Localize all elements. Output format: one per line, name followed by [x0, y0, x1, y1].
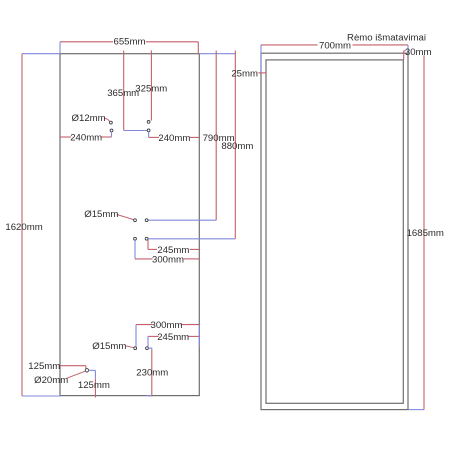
hole M-LR — [145, 237, 148, 240]
dimension 25mm — [231, 69, 266, 80]
hole UL — [110, 121, 113, 124]
wire blue extension top-left — [22, 53, 60, 55]
hole M-LL — [134, 237, 137, 240]
svg-text:245mm: 245mm — [157, 332, 189, 343]
svg-text:230mm: 230mm — [136, 368, 168, 379]
dimension 655mm line — [60, 37, 198, 54]
hole M-UL — [134, 219, 137, 222]
svg-text:Ø20mm: Ø20mm — [34, 375, 68, 386]
hole M-UR — [145, 219, 148, 222]
dimension 1685mm — [407, 55, 444, 409]
dimension 125mm upper — [28, 361, 86, 372]
wire blue hole to 880 — [148, 238, 235, 240]
leader Ø15mm upper — [84, 209, 133, 220]
hole UR — [147, 121, 150, 124]
hole B-R — [146, 347, 149, 350]
dimension 880mm line — [221, 51, 253, 239]
wire blue hole to 790 — [148, 219, 216, 221]
svg-text:Rėmo išmatavimai: Rėmo išmatavimai — [347, 33, 426, 44]
svg-text:700mm: 700mm — [319, 40, 351, 51]
svg-text:300mm: 300mm — [151, 320, 183, 331]
dimension 1620mm line — [5, 54, 42, 396]
frame outer outline — [261, 53, 408, 409]
frame inner outline — [266, 60, 403, 403]
leader Ø20mm — [34, 371, 85, 386]
dimension 245mm middle — [148, 240, 199, 256]
dimension 325mm line — [135, 51, 167, 121]
dimension 30mm — [404, 47, 432, 60]
svg-text:325mm: 325mm — [135, 83, 167, 94]
dimension 300mm middle — [135, 240, 199, 265]
svg-text:1685mm: 1685mm — [407, 228, 444, 239]
wire blue 365 to hole LR — [124, 130, 148, 132]
svg-text:240mm: 240mm — [158, 133, 190, 144]
dimension 240mm left — [60, 132, 112, 144]
panel outline (left door panel) — [60, 54, 199, 396]
hole B-L — [134, 347, 137, 350]
dimension 790mm line — [203, 51, 235, 221]
dimension 245mm lower — [148, 332, 199, 347]
dimension 365mm line — [107, 51, 139, 131]
dimension 230mm — [136, 348, 168, 396]
svg-text:Ø15mm: Ø15mm — [84, 209, 118, 220]
leader Ø12mm — [72, 113, 110, 124]
svg-text:655mm: 655mm — [114, 37, 146, 48]
svg-text:300mm: 300mm — [152, 254, 184, 265]
svg-text:Ø15mm: Ø15mm — [92, 341, 126, 352]
dimension 240mm right — [149, 132, 200, 144]
svg-text:30mm: 30mm — [405, 47, 432, 58]
hole LL — [110, 129, 113, 132]
svg-text:240mm: 240mm — [70, 132, 102, 143]
svg-text:25mm: 25mm — [231, 69, 258, 80]
svg-text:Ø12mm: Ø12mm — [72, 113, 106, 124]
wire blue extension bottom-left — [22, 395, 61, 397]
wire blue extension top-right — [199, 53, 235, 55]
svg-text:125mm: 125mm — [28, 361, 60, 372]
leader Ø15mm lower — [92, 341, 133, 352]
svg-text:1620mm: 1620mm — [5, 222, 42, 233]
svg-text:125mm: 125mm — [78, 380, 110, 391]
dimension 300mm lower — [136, 320, 199, 347]
dimension 125mm lower — [78, 370, 110, 397]
dimension 700mm — [261, 40, 408, 73]
hole Ø20 — [85, 369, 88, 372]
hole LR — [147, 129, 150, 132]
svg-text:880mm: 880mm — [221, 141, 253, 152]
